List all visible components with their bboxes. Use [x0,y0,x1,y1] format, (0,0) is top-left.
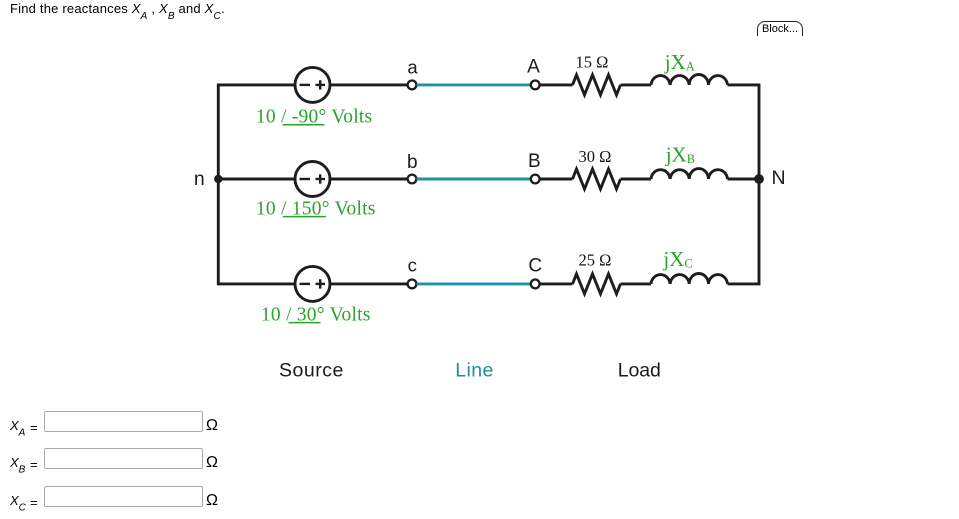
resistor 25 ohm [573,274,621,294]
wire: line segment b-B (teal) [417,178,531,181]
wire: resistor to inductor jXC [621,282,652,285]
wire: line segment c-C (teal) [417,282,531,285]
wire: right rail N from branch A to branch C [758,85,761,284]
wire: source V2 to node b [330,178,408,181]
resistor 30 ohm [573,169,621,189]
wire: left rail from branch a to branch c [217,85,220,284]
wire: inductor jXC to right rail [728,282,761,285]
node B terminal [531,175,540,184]
wire: resistor to inductor jXB [621,178,652,181]
resistor 15 ohm [573,75,621,95]
underline of angle 30 [289,322,321,324]
wire: resistor to inductor jXA [621,83,652,86]
wire: node A to resistor 15 ohm [540,83,573,86]
inductor jXC [651,273,728,283]
svg-text:C: C [528,256,542,277]
wire: branch b, left rail to source V2 [217,178,295,181]
underline of angle 150 [283,216,326,218]
svg-text:Line: Line [455,360,493,382]
answer row XA label [10,418,25,439]
svg-text:15 Ω: 15 Ω [576,52,609,71]
svg-text:n: n [194,168,205,190]
svg-text:A: A [527,56,540,77]
wire: inductor jXA to right rail [728,83,761,86]
inductor jXB [651,169,728,179]
voltage source V1 (10 /-90 Volts) [295,67,330,102]
svg-text:jXB: jXB [665,142,695,166]
wire: node C to resistor 25 ohm [540,282,573,285]
node A terminal [531,81,540,90]
voltage source V2 (10 /150 Volts) [295,162,330,197]
title: Find the reactances [10,1,225,22]
inductor jXA [651,75,728,85]
wire: source V3 to node c [330,282,408,285]
svg-text:jXC: jXC [662,247,692,271]
svg-text:N: N [772,167,786,189]
wire: source V1 to node a [330,83,408,86]
answer input XA [44,411,203,432]
voltage source V3 (10 /30 Volts) [295,266,330,301]
svg-text:30 Ω: 30 Ω [579,147,612,166]
node c terminal [408,280,417,289]
wire: branch a, left rail to source V1 [217,83,295,86]
svg-text:Load: Load [618,360,661,382]
underline of angle -90 [283,124,325,126]
wire: node B to resistor 30 ohm [540,178,573,181]
svg-text:jXA: jXA [664,50,695,74]
wire: branch c, left rail to source V3 [217,282,295,285]
answer input XC [44,486,203,507]
svg-text:25 Ω: 25 Ω [579,250,612,269]
svg-text:a: a [407,57,418,78]
answer row XB label [10,455,25,476]
node b terminal [408,175,417,184]
svg-text:Source: Source [279,360,344,382]
svg-text:B: B [528,151,541,172]
node a terminal [408,81,417,90]
wire: inductor jXB to node N [728,178,760,181]
node N junction dot [754,174,764,184]
answer row XC label [10,493,26,514]
wire: line segment a-A (teal) [417,83,531,86]
answer input XB [44,448,203,469]
node n junction dot [214,175,222,183]
svg-text:b: b [407,152,418,173]
Block... button tab [757,21,803,36]
svg-text:c: c [408,255,417,276]
node C terminal [531,280,540,289]
